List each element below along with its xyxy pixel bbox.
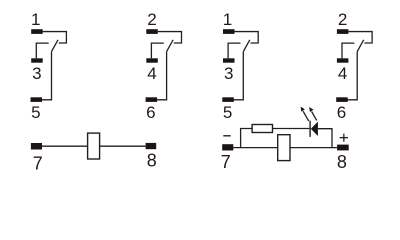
- movable contact arm (pole D): [357, 40, 364, 52]
- wire pin 2 to NC fixed contact (pole D): [348, 32, 372, 43]
- wire common pin 5 to arm (pole C): [233, 52, 243, 100]
- svg-text:4: 4: [338, 64, 347, 83]
- terminal pin 7 (LED coil, negative): [222, 144, 233, 150]
- svg-text:3: 3: [32, 64, 41, 83]
- wire NO fixed contact from pin 4 (pole D): [342, 43, 354, 58]
- terminal pin 3 (pole A): [31, 58, 43, 62]
- terminal pin 8 (LED coil, positive): [337, 145, 349, 151]
- svg-text:6: 6: [337, 103, 346, 122]
- wire pin 7 to coil: [42, 145, 88, 147]
- LED D1 anode triangle (pointing left): [311, 122, 318, 136]
- terminal pin 5 common (pole A): [31, 97, 43, 102]
- terminal pin 5 common (pole C): [222, 97, 234, 102]
- svg-text:8: 8: [337, 152, 347, 172]
- svg-text:8: 8: [147, 150, 157, 170]
- net polarity plus sign: [340, 134, 348, 142]
- LED emission arrow 2: [309, 107, 317, 120]
- movable contact arm (pole A): [52, 40, 59, 52]
- terminal pin 2 (pole B): [146, 29, 158, 34]
- svg-text:3: 3: [224, 64, 233, 83]
- terminal pin 4 (pole B): [146, 58, 158, 62]
- wire common pin 6 to arm (pole D): [347, 52, 357, 100]
- svg-text:5: 5: [223, 103, 232, 122]
- terminal pin 1 (pole C): [223, 29, 235, 34]
- movable contact arm (pole C): [243, 40, 250, 52]
- wire pin 1 to NC fixed contact (pole C): [235, 32, 259, 43]
- resistor R1 (LED series): [252, 125, 272, 133]
- wire pin 1 to NC fixed contact (pole A): [43, 32, 67, 43]
- wire NO fixed contact from pin 3 (pole A): [36, 43, 48, 58]
- terminal pin 2 (pole D): [337, 29, 349, 34]
- svg-text:4: 4: [147, 64, 156, 83]
- wire resistor to LED cathode: [273, 128, 310, 130]
- svg-text:5: 5: [31, 103, 40, 122]
- svg-text:7: 7: [33, 153, 43, 173]
- movable contact arm (pole B): [167, 40, 174, 52]
- wire LED anode to pin 8 drop: [318, 129, 332, 148]
- terminal pin 7 (standard coil): [31, 143, 42, 150]
- svg-text:6: 6: [146, 103, 155, 122]
- terminal pin 8 (standard coil): [146, 143, 157, 149]
- svg-text:1: 1: [223, 10, 232, 29]
- terminal pin 6 common (pole B): [146, 97, 158, 102]
- svg-text:2: 2: [338, 10, 347, 29]
- relay pinout schematic: [0, 0, 400, 180]
- wire junction up to LED branch: [241, 129, 253, 148]
- LED D1 cathode bar: [309, 121, 311, 137]
- wire pin 7 to coil: [233, 147, 277, 149]
- svg-text:2: 2: [147, 10, 156, 29]
- svg-text:7: 7: [221, 152, 231, 172]
- coil K1: [88, 133, 100, 159]
- wire NO fixed contact from pin 4 (pole B): [151, 43, 163, 58]
- wire pin 2 to NC fixed contact (pole B): [158, 32, 182, 43]
- wire coil to pin 8: [100, 145, 146, 147]
- net polarity minus sign: [223, 135, 230, 136]
- terminal pin 3 (pole C): [223, 58, 235, 62]
- wire NO fixed contact from pin 3 (pole C): [228, 43, 240, 58]
- terminal pin 6 common (pole D): [336, 97, 348, 102]
- LED emission arrow 1: [301, 107, 309, 122]
- wire common pin 6 to arm (pole B): [157, 52, 167, 100]
- wire common pin 5 to arm (pole A): [42, 52, 52, 100]
- terminal pin 4 (pole D): [337, 58, 349, 62]
- svg-text:1: 1: [31, 10, 40, 29]
- wire coil to pin 8: [290, 147, 337, 149]
- terminal pin 1 (pole A): [31, 29, 43, 34]
- coil K2 (LED coil): [278, 135, 290, 161]
